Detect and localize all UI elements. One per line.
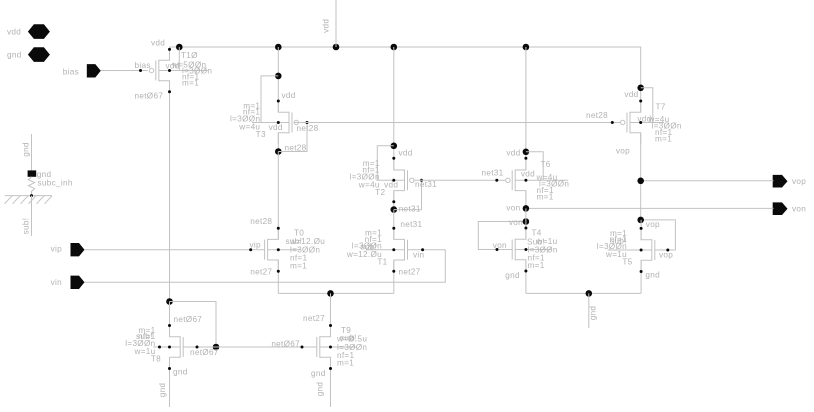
wire T1 source to tail	[393, 260, 395, 293]
transistor T3 drain lead	[278, 101, 289, 112]
svg-text:von: von	[493, 241, 507, 250]
wire T6 bulk tie to vdd	[526, 152, 543, 181]
svg-text:vop: vop	[792, 177, 806, 186]
node vdd rail junction at T3	[275, 44, 282, 51]
wire T9 source to gnd	[330, 357, 332, 407]
transistor T0 source lead	[268, 260, 279, 271]
transistor T2 gate bar	[407, 170, 409, 190]
transistor T7 bulk pin	[630, 122, 664, 124]
svg-text:subc_inh: subc_inh	[38, 179, 73, 188]
transistor T3 bulk pin	[252, 122, 289, 124]
transistor T1 bulk pin	[366, 249, 405, 251]
transistor T9 source lead	[320, 357, 331, 368]
svg-text:net27: net27	[303, 314, 325, 323]
wire T5 gate route from vop	[641, 220, 676, 250]
transistor T1 channel	[404, 239, 406, 261]
svg-text:vip: vip	[51, 244, 63, 253]
transistor T2 gate bubble	[410, 178, 414, 182]
wire T8 gate diode connection	[170, 302, 217, 348]
svg-text:bias: bias	[135, 61, 151, 70]
svg-text:vin: vin	[51, 278, 63, 287]
transistor T4 gate bar	[511, 240, 513, 260]
svg-text:net31: net31	[482, 168, 504, 177]
svg-text:T1: T1	[377, 257, 387, 266]
svg-text:gnd: gnd	[315, 382, 324, 397]
transistor T0 gate bar	[264, 240, 266, 260]
wire T4 gate route from von	[478, 222, 526, 250]
wire gnd stub (left)	[31, 134, 33, 170]
node vdd rail junction at T10 bulk drop	[176, 44, 183, 51]
svg-text:net31: net31	[400, 220, 422, 229]
node von junction (T4 drain tap)	[523, 218, 530, 225]
wire T10 drain net067 (long vertical)	[169, 81, 171, 302]
transistor T0 drain lead	[268, 228, 279, 239]
node vop junction (T5 drain tap)	[637, 217, 644, 224]
wire T7 bulk tie to vdd	[641, 88, 653, 123]
inherited connection square gnd	[28, 170, 37, 176]
transistor T4 bulk pin	[515, 249, 551, 251]
transistor T6 gate bar	[511, 170, 513, 190]
wire net31 bus T2 gate to T6 gate	[414, 179, 506, 181]
svg-text:von: von	[506, 204, 520, 213]
wire net067 T8 gate to T9 gate	[183, 346, 317, 348]
svg-text:vip: vip	[250, 240, 262, 249]
transistor T7 channel	[629, 112, 631, 134]
transistor T8 drain lead	[170, 326, 181, 337]
inout pin vdd (top left)	[28, 24, 50, 39]
transistor T2 drain lead	[394, 159, 405, 170]
wire T9 drain to net27 node	[330, 293, 332, 336]
wire T2 bulk tie to vdd	[377, 146, 394, 181]
transistor T6 source lead	[515, 191, 526, 202]
transistor T4 source lead	[515, 260, 526, 271]
svg-text:T1Ø: T1Ø	[181, 51, 198, 60]
svg-text:m=1: m=1	[655, 135, 672, 144]
svg-text:vdd: vdd	[269, 123, 283, 132]
svg-text:vdd: vdd	[506, 148, 520, 157]
wire T6 drain to von node	[525, 191, 527, 209]
wire sub! stub	[31, 196, 33, 236]
transistor T3 channel	[288, 112, 290, 134]
transistor T10 gate bar	[155, 61, 157, 81]
transistor T9 bulk pin	[320, 346, 357, 348]
wire T8 drain from net067 node	[169, 302, 171, 337]
node vdd junction at T2 bulk tie	[391, 143, 398, 150]
output pin von	[773, 202, 788, 215]
svg-text:netØ67: netØ67	[174, 315, 203, 324]
wire net27 tail bus	[278, 292, 394, 294]
svg-text:gnd: gnd	[173, 367, 188, 376]
node net31 junction	[391, 206, 398, 213]
transistor T10 drain lead	[159, 49, 170, 60]
node net28 junction	[275, 148, 282, 155]
transistor T8 source lead	[170, 357, 181, 368]
svg-text:vdd: vdd	[282, 91, 296, 100]
wire vdd stub (top middle)	[335, 0, 337, 47]
transistor T6 channel	[514, 170, 516, 192]
svg-text:gnd: gnd	[505, 271, 520, 280]
svg-text:vdd: vdd	[624, 90, 638, 99]
transistor T6 drain lead	[515, 159, 526, 170]
svg-text:gnd: gnd	[158, 383, 167, 398]
svg-text:gnd: gnd	[588, 306, 597, 321]
svg-text:T8: T8	[151, 355, 161, 364]
svg-text:gnd: gnd	[21, 142, 30, 157]
transistor T2 bulk pin	[377, 179, 405, 181]
wire T2 source to vdd rail	[393, 47, 395, 170]
transistor T8 channel	[179, 336, 181, 358]
svg-text:T3: T3	[256, 130, 266, 139]
transistor T3 gate bar	[291, 113, 293, 133]
transistor T5 drain lead	[641, 229, 652, 240]
transistor T10 gate bubble	[149, 68, 153, 72]
svg-text:netØ67: netØ67	[135, 91, 164, 100]
transistor T7 gate bar	[626, 113, 628, 133]
svg-text:vin: vin	[413, 251, 425, 260]
transistor T6 bulk pin	[515, 179, 568, 181]
svg-text:gnd: gnd	[645, 271, 660, 280]
wire T10 bulk tie to vdd rail	[178, 47, 180, 71]
node net27 junction to T9 drain	[327, 290, 334, 297]
svg-text:sub!: sub!	[21, 218, 30, 235]
node vdd junction at T7	[637, 85, 644, 92]
transistor T9 gate bar	[316, 337, 318, 357]
svg-text:T5: T5	[622, 258, 632, 267]
wire T6 source to vdd rail	[525, 47, 527, 170]
transistor T10 channel	[158, 60, 160, 82]
wire T3 gate diode connection	[278, 123, 307, 152]
svg-text:net31: net31	[399, 204, 421, 213]
svg-text:vdd: vdd	[399, 149, 413, 158]
node vdd rail junction at T6	[523, 44, 530, 51]
svg-text:vdd: vdd	[7, 27, 21, 36]
svg-text:m=1: m=1	[182, 79, 199, 88]
transistor T7 source lead	[630, 133, 641, 144]
svg-text:vdd: vdd	[384, 181, 398, 190]
svg-text:vdd: vdd	[521, 169, 535, 178]
wire net28 bus T3 gate to T7 gate	[295, 122, 621, 124]
wire T3 source to vdd rail	[277, 47, 279, 112]
wire T2 gate diode connection	[394, 180, 422, 209]
squiggle subc_inh	[28, 177, 34, 196]
svg-text:vop: vop	[616, 146, 630, 155]
transistor T7 gate bubble	[621, 120, 625, 124]
transistor T4 channel	[514, 239, 516, 261]
wire T8 source to gnd	[169, 357, 171, 407]
wire vin to T1 gate (long route)	[85, 250, 446, 283]
node gnd junction to stub	[586, 290, 593, 297]
svg-text:bias: bias	[63, 67, 79, 76]
wire T5 drain	[640, 220, 642, 240]
svg-text:vdd: vdd	[151, 38, 165, 47]
wire T0 drain to net28 node	[277, 152, 279, 240]
wire T4 source to gnd bus	[525, 260, 527, 294]
node von junction at output wire	[523, 205, 530, 212]
svg-text:vop: vop	[646, 220, 660, 229]
wire T7 source to vdd rail corner	[640, 88, 642, 112]
wire von node to T6 drain node	[525, 208, 527, 221]
transistor T5 source lead	[641, 260, 652, 271]
wire T1 drain to net31 node	[393, 210, 395, 240]
transistor T10 source lead	[159, 81, 170, 92]
svg-text:net27: net27	[250, 267, 272, 276]
wire vdd rail (top)	[170, 47, 641, 88]
transistor T5 channel	[651, 239, 653, 261]
node vdd junction at T6 bulk tie	[523, 149, 530, 156]
wire von output	[526, 207, 774, 209]
node vdd rail junction at vdd stub	[333, 44, 340, 51]
transistor T2 channel	[404, 170, 406, 192]
wire T0 source to tail	[277, 260, 279, 293]
wire T3 bulk tie to vdd	[261, 76, 278, 123]
wire T10 source to vdd rail	[169, 47, 171, 60]
svg-text:gnd: gnd	[311, 369, 326, 378]
svg-text:net28: net28	[586, 111, 608, 120]
svg-text:T2: T2	[375, 188, 385, 197]
transistor T0 channel	[267, 239, 269, 261]
svg-text:von: von	[509, 218, 523, 227]
svg-text:net31: net31	[415, 180, 437, 189]
svg-text:vop: vop	[659, 250, 673, 259]
node net067 gate junction	[213, 344, 220, 351]
transistor T3 source lead	[278, 133, 289, 144]
svg-text:net28: net28	[250, 217, 272, 226]
transistor T1 gate bar	[407, 240, 409, 260]
wire T5 source to gnd bus	[640, 260, 642, 293]
transistor T8 gate bar	[182, 337, 184, 357]
transistor T8 bulk pin	[153, 346, 180, 348]
transistor T6 gate bubble	[506, 178, 510, 182]
inout pin gnd (top left)	[28, 47, 50, 62]
svg-text:m=1: m=1	[537, 192, 554, 201]
svg-text:T7: T7	[656, 102, 666, 111]
transistor T5 bulk pin	[608, 249, 652, 251]
wire T2 drain to net31 node	[393, 191, 395, 210]
wire gnd stub (bottom right)	[588, 293, 590, 328]
wire T4 drain	[525, 222, 527, 240]
transistor T2 source lead	[394, 191, 405, 202]
svg-text:T6: T6	[541, 160, 551, 169]
svg-text:m=1: m=1	[290, 261, 307, 270]
transistor T0 bulk pin	[268, 249, 301, 251]
wire bias to T10 gate	[101, 70, 148, 72]
node net067 junction (T8)	[166, 298, 173, 305]
earth ground symbol (sub!)	[5, 195, 52, 197]
wire T3 drain to net28 node	[277, 133, 279, 152]
wire vop output	[641, 180, 774, 182]
svg-text:net28: net28	[297, 124, 319, 133]
transistor T7 drain lead	[630, 101, 641, 112]
svg-text:m=1: m=1	[528, 261, 545, 270]
svg-text:vdd: vdd	[321, 19, 330, 33]
wire T7 drain to vop node	[640, 133, 642, 220]
transistor T1 source lead	[394, 260, 405, 271]
svg-text:von: von	[792, 204, 806, 213]
svg-text:netØ67: netØ67	[190, 348, 219, 357]
transistor T9 drain lead	[320, 326, 331, 337]
node vop junction at output wire	[637, 178, 644, 185]
transistor T3 gate bubble	[294, 120, 298, 124]
transistor T9 channel	[319, 336, 321, 358]
svg-text:gnd: gnd	[7, 50, 22, 59]
transistor T4 drain lead	[515, 228, 526, 239]
transistor T1 drain lead	[394, 228, 405, 239]
output pin vop	[773, 175, 788, 188]
wire gnd bus (bottom right)	[526, 292, 641, 294]
svg-text:netØ67: netØ67	[271, 340, 300, 349]
transistor T5 gate bar	[654, 240, 656, 260]
transistor T10 bulk pin	[159, 70, 208, 72]
svg-text:m=1: m=1	[337, 359, 354, 368]
svg-text:net27: net27	[399, 267, 421, 276]
node vdd rail junction at T2	[391, 44, 398, 51]
wire vip to T0 gate	[85, 249, 265, 251]
